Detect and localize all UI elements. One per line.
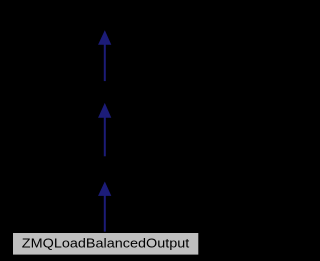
inheritance arrow (middle): shaft wire <box>104 116 106 156</box>
class node label ZMQLoadBalancedOutput <box>22 236 190 250</box>
inheritance arrow (bottom): shaft wire <box>104 195 106 232</box>
svg-text:ZMQLoadBalancedOutput: ZMQLoadBalancedOutput <box>22 236 190 250</box>
inheritance arrow (bottom): arrowhead <box>99 182 111 195</box>
class node box ZMQLoadBalancedOutput <box>12 232 199 255</box>
inheritance arrow (top): arrowhead <box>99 31 111 44</box>
inheritance arrow (middle): arrowhead <box>99 104 111 117</box>
inheritance arrow (top): shaft wire <box>104 44 106 82</box>
